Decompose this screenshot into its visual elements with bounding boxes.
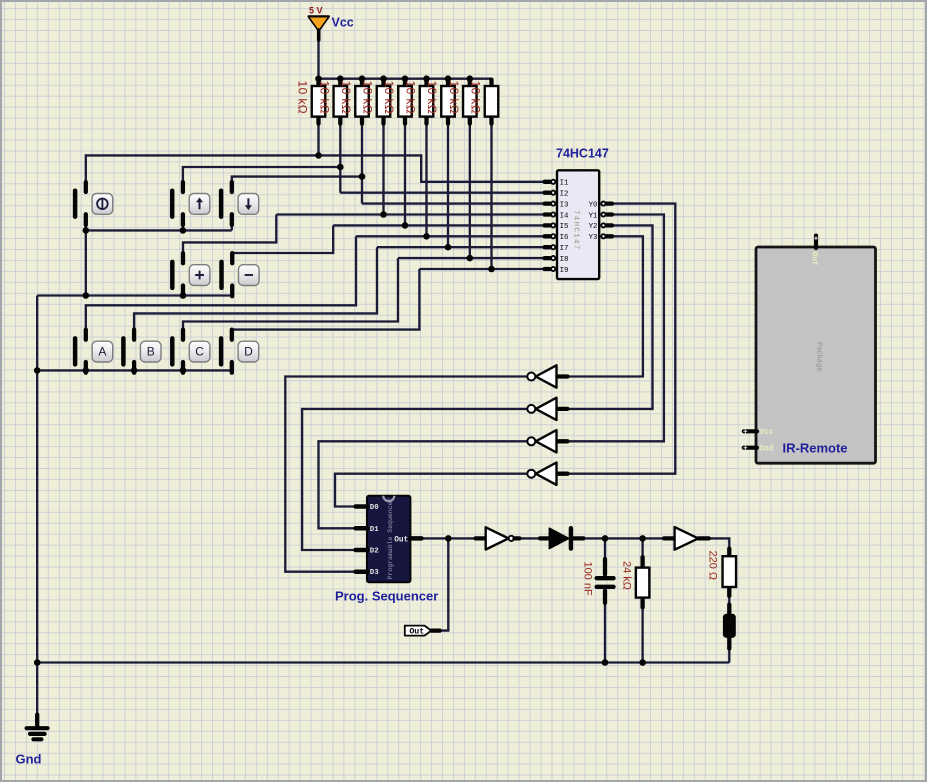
svg-text:10 kΩ: 10 kΩ xyxy=(404,81,418,115)
svg-text:10 kΩ: 10 kΩ xyxy=(296,81,310,115)
svg-text:10 kΩ: 10 kΩ xyxy=(425,81,439,115)
svg-text:I8: I8 xyxy=(560,256,569,264)
svg-text:Package: Package xyxy=(815,342,823,371)
svg-text:D0: D0 xyxy=(370,504,379,512)
svg-text:I9: I9 xyxy=(560,267,569,275)
svg-text:Y1: Y1 xyxy=(589,212,598,220)
svg-text:Y0: Y0 xyxy=(589,201,598,209)
svg-text:Prog. Sequencer: Prog. Sequencer xyxy=(335,589,438,604)
svg-text:Y3: Y3 xyxy=(589,234,598,242)
svg-text:D1: D1 xyxy=(370,526,379,534)
svg-text:Vcc: Vcc xyxy=(759,428,774,437)
svg-text:IR-Remote: IR-Remote xyxy=(783,441,848,456)
svg-text:220 Ω: 220 Ω xyxy=(707,551,719,581)
svg-text:10 kΩ: 10 kΩ xyxy=(339,81,353,115)
svg-text:5 V: 5 V xyxy=(309,6,323,16)
svg-text:D2: D2 xyxy=(370,548,379,556)
svg-text:I7: I7 xyxy=(560,245,569,253)
svg-text:10 kΩ: 10 kΩ xyxy=(469,81,483,115)
svg-text:I1: I1 xyxy=(560,180,569,188)
svg-text:Gnd: Gnd xyxy=(759,445,774,454)
svg-text:74HC147: 74HC147 xyxy=(572,210,580,251)
svg-text:Programable Sequencer: Programable Sequencer xyxy=(387,497,394,579)
svg-text:Gnd: Gnd xyxy=(16,752,42,767)
svg-text:D3: D3 xyxy=(370,569,379,577)
svg-text:I6: I6 xyxy=(560,234,569,242)
svg-text:I3: I3 xyxy=(560,201,569,209)
svg-text:Out: Out xyxy=(394,537,408,545)
svg-text:10 kΩ: 10 kΩ xyxy=(382,81,396,115)
svg-text:D: D xyxy=(244,345,253,359)
svg-text:Y2: Y2 xyxy=(589,223,598,231)
svg-text:74HC147: 74HC147 xyxy=(556,147,609,161)
svg-text:10 kΩ: 10 kΩ xyxy=(447,81,461,115)
svg-text:B: B xyxy=(147,345,155,359)
svg-text:24 kΩ: 24 kΩ xyxy=(621,561,633,590)
svg-text:A: A xyxy=(98,345,106,359)
svg-text:I2: I2 xyxy=(560,191,569,199)
svg-text:Out: Out xyxy=(409,628,424,637)
svg-text:Out: Out xyxy=(810,252,819,267)
svg-text:I5: I5 xyxy=(560,223,569,231)
svg-text:C: C xyxy=(195,345,204,359)
svg-text:10 kΩ: 10 kΩ xyxy=(361,81,375,115)
svg-text:Vcc: Vcc xyxy=(332,16,354,30)
svg-text:I4: I4 xyxy=(560,212,569,220)
svg-text:10 kΩ: 10 kΩ xyxy=(317,81,331,115)
svg-text:100 nF: 100 nF xyxy=(582,562,594,597)
